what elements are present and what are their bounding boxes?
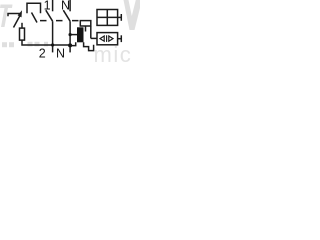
svg-text:1: 1 [44,0,51,13]
svg-text:N: N [56,47,65,61]
svg-text:N: N [61,0,70,13]
svg-text:2: 2 [39,47,46,61]
